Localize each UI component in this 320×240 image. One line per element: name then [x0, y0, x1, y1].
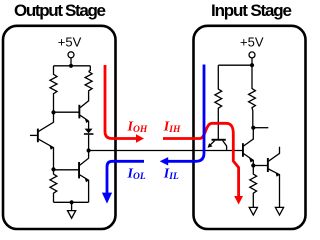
diode D1 cathode bar	[84, 133, 94, 135]
supply terminal circle (input)	[249, 52, 255, 58]
transistor Q4 emitter arrow	[85, 118, 89, 123]
node A dot (R1 / Q2 collector / Q4 base)	[51, 110, 55, 114]
transistor Q1 collector	[223, 141, 227, 151]
current path IIL (blue)	[168, 65, 204, 162]
wire +5V rail (input)	[218, 64, 252, 66]
wire stub right of R5 node	[253, 127, 268, 129]
resistor R4 input base	[215, 65, 222, 139]
transistor Q2 emitter	[39, 139, 54, 169]
transistor Q1 base bar (horizontal)	[212, 139, 226, 141]
ground symbol (output)	[68, 211, 76, 219]
transistor Q1 emitter	[208, 141, 215, 147]
transistor Q4 collector	[80, 92, 89, 108]
resistor R3 pulldown	[50, 169, 57, 202]
current path IOL (blue)	[107, 161, 144, 193]
wire output to input stage	[89, 150, 243, 152]
svg-text:+5V: +5V	[240, 35, 264, 50]
transistor Q5 emitter arrow	[249, 158, 253, 163]
transistor Q6 emitter arrow	[275, 172, 280, 177]
node dot ground tap	[70, 200, 74, 204]
node dot supply rail (output)	[69, 64, 73, 68]
resistor R5 input collector	[249, 65, 256, 128]
diode D1 triangle	[85, 129, 93, 134]
input stage box	[194, 26, 306, 229]
wire Q3 base	[54, 169, 79, 171]
ground stub (output)	[71, 202, 73, 210]
transistor Q5 emitter	[244, 154, 254, 166]
svg-text:+5V: +5V	[58, 35, 82, 50]
svg-text:Input Stage: Input Stage	[211, 1, 292, 20]
transistor Q6 emitter	[269, 169, 280, 207]
ground symbol below Q6	[275, 207, 283, 215]
resistor R6 input emitter	[250, 166, 257, 208]
wire Q6 base	[253, 165, 267, 167]
arrowhead IOL	[102, 193, 112, 204]
transistor Q5 bar (input phase splitter)	[242, 143, 244, 157]
supply terminal circle (output)	[68, 52, 74, 58]
current path IOH (red)	[105, 65, 137, 139]
transistor Q4 emitter	[80, 115, 89, 121]
transistor Q2 bar	[37, 129, 39, 143]
transistor Q3 emitter arrow	[85, 178, 89, 183]
transistor Q1 emitter arrow	[208, 143, 213, 148]
transistor Q3 emitter	[80, 175, 89, 203]
transistor Q4 bar	[78, 105, 80, 119]
ground symbol below R6	[249, 207, 257, 215]
wire Q2 base stub	[30, 134, 37, 136]
resistor R2	[85, 66, 92, 92]
transistor Q2 emitter arrow	[49, 145, 53, 150]
transistor Q3 bar	[78, 162, 80, 178]
wire supply to rail (input)	[251, 58, 253, 65]
wire diode to output node	[88, 135, 90, 151]
output stage box	[3, 26, 116, 229]
svg-text:Output Stage: Output Stage	[14, 1, 106, 20]
resistor R1	[50, 66, 57, 113]
wire Q4 base	[54, 111, 79, 113]
wire Q4 emitter to diode	[88, 121, 90, 129]
arrowhead IIL	[160, 157, 169, 165]
node dot Q2 emitter / Q3 base	[51, 167, 55, 171]
transistor Q6 collector stub	[269, 147, 280, 162]
wire supply to rail (output)	[70, 58, 72, 66]
transistor Q2 collector	[39, 114, 54, 131]
transistor Q6 bar	[267, 158, 269, 172]
wire bottom (output)	[54, 201, 89, 203]
arrowhead IOH	[136, 134, 144, 142]
transistor Q5 collector	[244, 130, 254, 147]
transistor Q3 collector	[80, 153, 89, 166]
wire +5V rail (output)	[54, 65, 91, 67]
node dot R5 bottom	[251, 126, 255, 130]
node dot supply rail (input)	[250, 63, 254, 67]
arrowhead IIH	[234, 196, 243, 205]
node dot output	[87, 148, 91, 152]
node dot Q5 emitter	[251, 163, 255, 167]
current path IIH (red)	[163, 123, 239, 196]
